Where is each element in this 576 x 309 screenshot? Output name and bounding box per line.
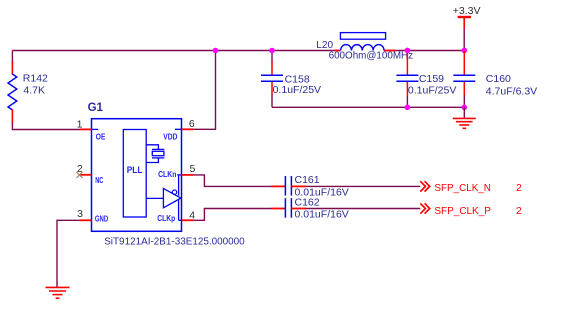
resistor R142 top pin stub [11, 51, 13, 63]
off-page connector SFP_CLK_P [420, 203, 429, 213]
svg-text:PLL: PLL [127, 165, 143, 176]
svg-text:NC: NC [95, 175, 103, 185]
wire: bottom ground rail [272, 106, 464, 108]
capacitor C158 pin stubs [271, 61, 273, 95]
wire: rail drop to C158 [271, 51, 273, 62]
wire: C162 to SFP_CLK_P port [306, 208, 420, 210]
svg-text:0.01uF/16V: 0.01uF/16V [295, 209, 349, 221]
wire: CLKp net from pin 4 to C162 [193, 209, 272, 221]
pin 1 stub [80, 128, 92, 130]
wire: C158 bottom to ground rail [271, 94, 273, 107]
capacitor C161 right pin stub [291, 185, 306, 187]
op-amp/IC U G1 body [92, 119, 182, 232]
ground symbol (power rail) [453, 118, 476, 128]
PLL block inside G1 [123, 130, 146, 218]
svg-text:GND: GND [95, 214, 108, 224]
crystal symbol inside G1 [146, 145, 164, 163]
wire: CLKn net from pin 5 to C161 [193, 175, 272, 187]
capacitor C161 left pin stub [272, 185, 286, 187]
off-page connector SFP_CLK_N [420, 181, 429, 191]
capacitor C162 left pin stub [272, 208, 286, 210]
power symbol +3.3V [458, 17, 471, 29]
capacitor C159 bottom stub [406, 82, 408, 96]
junction at rail/pin6 branch [213, 48, 219, 54]
svg-text:C161: C161 [295, 174, 320, 186]
svg-text:0.1uF/25V: 0.1uF/25V [408, 84, 456, 96]
capacitor C160 pin stubs [463, 51, 465, 95]
capacitor C161 plates [285, 176, 291, 196]
svg-text:R142: R142 [23, 72, 48, 84]
junction at rail end / +3.3V / C160 [462, 48, 468, 54]
svg-text:3: 3 [77, 208, 83, 220]
wire: pin 3 to ground [57, 220, 80, 287]
svg-text:2: 2 [516, 182, 522, 194]
wire: C159 to ground rail [406, 96, 408, 107]
inductor L20 coil [341, 45, 384, 51]
wire: +3.3V to rail [463, 29, 465, 51]
capacitor C162 right pin stub [291, 208, 306, 210]
capacitor C160 plates [453, 75, 475, 81]
output buffer triangle [163, 188, 181, 207]
pin 6 internal stub [175, 128, 182, 130]
wire: buffer output to CLKp [179, 200, 182, 221]
svg-text:+3.3V: +3.3V [453, 5, 481, 17]
svg-text:5: 5 [190, 163, 196, 175]
svg-text:6: 6 [189, 118, 195, 130]
wire: C161 to SFP_CLK_N port [306, 185, 420, 187]
junction at rail/C159 branch [405, 48, 411, 54]
wire: top VDD rail right segment [396, 50, 465, 52]
svg-text:OE: OE [96, 132, 106, 142]
wire: L20 right pin stub [384, 50, 396, 52]
svg-text:CLKp: CLKp [157, 213, 175, 223]
wire: rail drop to pin 6 [193, 51, 215, 130]
svg-text:G1: G1 [88, 102, 104, 114]
svg-text:SiT9121AI-2B1-33E125.000000: SiT9121AI-2B1-33E125.000000 [104, 236, 245, 248]
pin 3 stub [80, 219, 92, 221]
pin 5 stub [182, 174, 194, 176]
svg-text:0.1uF/25V: 0.1uF/25V [273, 84, 321, 96]
svg-text:SFP_CLK_P: SFP_CLK_P [434, 205, 491, 217]
junction at rail/C158 branch [269, 48, 275, 54]
svg-text:C162: C162 [295, 196, 320, 208]
svg-text:VDD: VDD [163, 131, 177, 141]
wire: L20 left pin stub [335, 50, 341, 52]
resistor R142 body [8, 74, 17, 110]
wire: top VDD rail left segment [12, 50, 336, 52]
wire: ground rail to ground symbol [463, 107, 465, 118]
svg-text:2: 2 [516, 205, 522, 217]
svg-text:SFP_CLK_N: SFP_CLK_N [434, 182, 491, 194]
junction at ground rail/C159 [405, 105, 411, 111]
svg-text:CLKn: CLKn [158, 169, 176, 179]
svg-text:600Ohm@100MHz: 600Ohm@100MHz [329, 50, 414, 62]
svg-text:1: 1 [77, 118, 83, 130]
inverter bubble [172, 190, 176, 194]
pin 2 stub [80, 174, 92, 176]
wire: rail drop to C159 [406, 51, 408, 75]
capacitor C159 plates [396, 75, 418, 81]
pin 6 stub [182, 128, 194, 130]
ground symbol (G1 GND) [46, 287, 70, 298]
wire: R142 bottom to pin 1 [12, 123, 80, 130]
wire: C160 to ground rail [463, 95, 465, 107]
svg-text:4.7uF/6.3V: 4.7uF/6.3V [486, 85, 537, 97]
capacitor C162 plates [285, 198, 291, 218]
no-connect X on pin 2 [77, 172, 83, 178]
inductor L20 ferrite-bead box [340, 33, 385, 40]
pin 4 stub [182, 219, 194, 221]
wire: PLL to output buffer [146, 197, 163, 199]
pin 1 internal stub [92, 128, 99, 130]
wire: buffer inverted output to CLKn [177, 175, 181, 196]
svg-text:C160: C160 [486, 73, 511, 85]
capacitor C158 plates [261, 75, 283, 81]
svg-text:C159: C159 [419, 73, 444, 85]
resistor R142 bottom pin stub [11, 110, 13, 124]
junction at ground rail end [462, 105, 468, 111]
svg-text:4.7K: 4.7K [23, 85, 45, 97]
